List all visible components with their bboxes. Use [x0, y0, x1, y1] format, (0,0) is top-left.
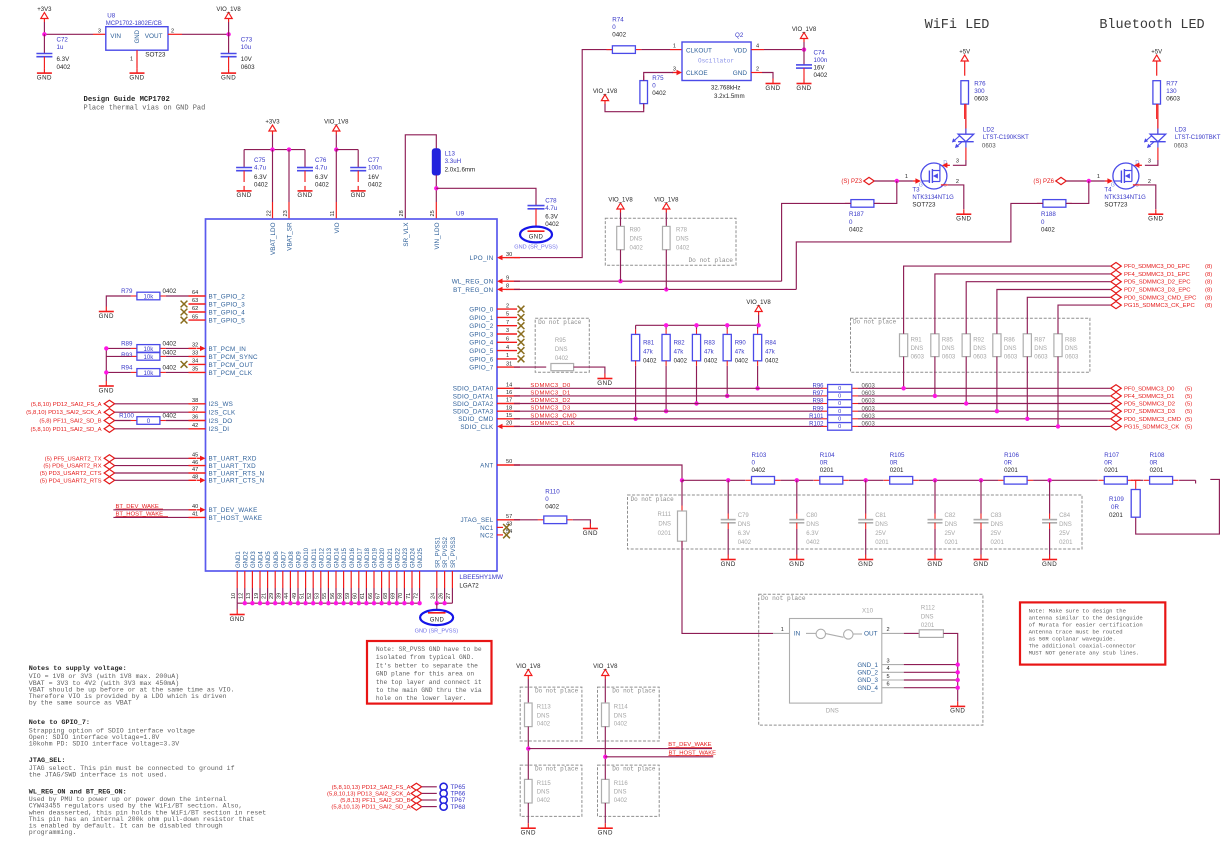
- power symbol VIO_1V8 (R113): [516, 664, 541, 679]
- bus SDIO pull-up rail: [636, 324, 759, 326]
- svg-text:TP68: TP68: [451, 804, 466, 811]
- svg-text:0R: 0R: [1150, 459, 1158, 466]
- svg-text:R110: R110: [545, 489, 560, 496]
- capacitor C84 DNS: [1049, 480, 1051, 513]
- power symbol +3V3 (LDO input): [37, 7, 52, 22]
- svg-text:VBAT_SR: VBAT_SR: [287, 222, 294, 251]
- svg-text:0201: 0201: [1104, 467, 1118, 474]
- svg-text:DNS: DNS: [973, 346, 986, 352]
- svg-text:C82: C82: [945, 513, 957, 519]
- svg-text:0402: 0402: [163, 350, 177, 357]
- svg-text:0603: 0603: [982, 143, 996, 150]
- svg-text:SR_PVSS2: SR_PVSS2: [443, 536, 449, 568]
- svg-text:0402: 0402: [849, 227, 863, 234]
- svg-text:24: 24: [431, 593, 437, 599]
- wire R92 to EPC port: [966, 282, 1110, 334]
- wire R187 to T3 gate: [874, 181, 897, 203]
- svg-text:PD7_SDMMC3_D3: PD7_SDMMC3_D3: [1124, 409, 1176, 415]
- ground R79: [99, 307, 114, 320]
- svg-text:GND: GND: [236, 192, 251, 199]
- svg-text:DNS: DNS: [1004, 346, 1017, 352]
- power symbol VIO_1V8 (VIO pin): [324, 120, 349, 135]
- wire PD4_USART2_RTS to U9: [115, 479, 189, 481]
- svg-text:0: 0: [545, 496, 549, 503]
- wire L13 to C78: [436, 188, 536, 205]
- svg-text:GND22: GND22: [395, 547, 401, 568]
- svg-text:R114: R114: [614, 704, 629, 710]
- resistor R93: [131, 353, 166, 361]
- power symbol VIO_1V8 (LDO output): [228, 22, 230, 34]
- svg-text:GND: GND: [796, 85, 811, 92]
- svg-text:0402: 0402: [614, 798, 628, 804]
- svg-text:GND (SR_PVSS): GND (SR_PVSS): [415, 628, 459, 634]
- svg-text:GND: GND: [927, 561, 942, 568]
- svg-text:LPO_IN: LPO_IN: [470, 255, 494, 262]
- svg-text:PG15_SDMMC3_CK_EPC: PG15_SDMMC3_CK_EPC: [1124, 303, 1195, 309]
- svg-text:BT_PCM_IN: BT_PCM_IN: [209, 346, 247, 353]
- svg-text:0603: 0603: [862, 399, 876, 405]
- svg-text:R116: R116: [614, 781, 629, 787]
- svg-text:R104: R104: [820, 452, 835, 459]
- port PD5_SDMMC3_D2: [1111, 400, 1122, 407]
- svg-text:GND_2: GND_2: [857, 670, 878, 677]
- svg-text:GPIO_0: GPIO_0: [469, 307, 493, 314]
- svg-text:PF0_SDMMC3_D0_EPC: PF0_SDMMC3_D0_EPC: [1124, 264, 1191, 270]
- svg-text:I2S_CLK: I2S_CLK: [209, 410, 237, 417]
- svg-text:GND5: GND5: [266, 551, 272, 568]
- svg-text:NC1: NC1: [480, 525, 494, 532]
- junction BT_DEV_WAKE: [526, 746, 530, 750]
- svg-text:0603: 0603: [1174, 143, 1188, 150]
- svg-text:3: 3: [1148, 158, 1151, 164]
- svg-text:13: 13: [246, 593, 252, 599]
- svg-text:C80: C80: [806, 513, 818, 519]
- svg-text:100n: 100n: [368, 165, 382, 172]
- svg-text:1: 1: [130, 57, 133, 63]
- pin 1 T3 gate: [913, 178, 921, 183]
- svg-text:(8): (8): [1205, 303, 1212, 309]
- svg-text:61: 61: [360, 593, 366, 599]
- svg-text:GND: GND: [721, 561, 736, 568]
- junction R81: [633, 417, 637, 421]
- svg-text:BT_PCM_OUT: BT_PCM_OUT: [209, 362, 254, 369]
- svg-text:(5) PD4_USART2_RTS: (5) PD4_USART2_RTS: [40, 478, 102, 484]
- do-not-place box antenna caps: [628, 495, 1083, 549]
- svg-text:5: 5: [887, 674, 890, 680]
- wire SDMMC3_D0: [514, 387, 822, 389]
- svg-text:Note: Make sure to design the: Note: Make sure to design the: [1029, 607, 1126, 614]
- svg-text:DNS: DNS: [537, 790, 550, 796]
- svg-text:0402: 0402: [806, 540, 820, 546]
- wire R84 to SDIO line: [757, 366, 759, 389]
- svg-text:66: 66: [368, 593, 374, 599]
- junction VDD/C74: [802, 47, 806, 51]
- svg-text:GND: GND: [1042, 561, 1057, 568]
- svg-text:LD3: LD3: [1175, 127, 1187, 134]
- svg-text:0603: 0603: [1034, 355, 1048, 361]
- svg-text:72: 72: [413, 593, 419, 599]
- junction R92: [964, 401, 968, 405]
- resistor R90 47k: [726, 325, 728, 329]
- svg-text:0402: 0402: [612, 32, 626, 39]
- ground C76: [297, 186, 312, 199]
- capacitor C82 DNS: [934, 480, 936, 513]
- junction VBAT_LDO: [270, 147, 274, 151]
- svg-text:GND7: GND7: [281, 551, 287, 568]
- svg-text:(5): (5): [1185, 402, 1192, 408]
- svg-text:NTK3134NT1G: NTK3134NT1G: [912, 195, 954, 201]
- svg-text:BT_GPIO_3: BT_GPIO_3: [209, 301, 246, 308]
- svg-text:VIO_1V8: VIO_1V8: [792, 27, 817, 33]
- power symbol +3V3 (VBAT): [265, 120, 280, 135]
- pin 2 X10 OUT: [882, 632, 904, 634]
- svg-text:R113: R113: [537, 704, 552, 710]
- svg-text:DNS: DNS: [555, 347, 568, 353]
- svg-text:25V: 25V: [875, 531, 886, 537]
- ground R116: [598, 823, 613, 836]
- svg-text:DNS: DNS: [991, 522, 1004, 528]
- svg-text:GND: GND: [597, 380, 612, 387]
- wire SR_PVSS to isolated ground: [436, 603, 438, 609]
- svg-text:3: 3: [887, 658, 890, 664]
- svg-text:GND17: GND17: [357, 547, 363, 568]
- wire R86 to SDIO line: [996, 357, 998, 412]
- junction VOUT/C73: [226, 32, 230, 36]
- resistor R87 DNS: [1023, 334, 1031, 357]
- svg-text:41: 41: [192, 512, 198, 518]
- svg-text:Place thermal vias on GND Pad: Place thermal vias on GND Pad: [84, 105, 206, 113]
- svg-text:0603: 0603: [942, 355, 956, 361]
- svg-text:GND: GND: [230, 616, 245, 623]
- resistor R102 0: [822, 425, 828, 427]
- resistor R84 47k: [757, 325, 759, 329]
- svg-text:0402: 0402: [537, 722, 551, 728]
- svg-text:GND15: GND15: [342, 547, 348, 568]
- svg-text:DNS: DNS: [614, 713, 627, 719]
- bus GND pins U9: [237, 602, 419, 604]
- svg-text:0: 0: [652, 82, 656, 89]
- ground SR_PVSS isolated: [420, 610, 453, 625]
- wire LD2 cathode to T3 drain: [965, 148, 967, 161]
- svg-text:SOT723: SOT723: [1104, 202, 1128, 209]
- ground C81: [858, 555, 873, 568]
- svg-text:DNS: DNS: [537, 713, 550, 719]
- svg-text:0402: 0402: [643, 359, 657, 365]
- svg-text:DNS: DNS: [1034, 346, 1047, 352]
- power symbol VIO_1V8 (R78): [654, 198, 679, 213]
- pin 3 T4 drain: [1134, 163, 1142, 168]
- svg-text:47k: 47k: [674, 350, 685, 356]
- svg-text:GND: GND: [99, 387, 114, 394]
- svg-text:GND: GND: [765, 85, 780, 92]
- svg-text:R78: R78: [676, 228, 688, 234]
- svg-text:4.7u: 4.7u: [545, 205, 558, 212]
- svg-text:GPIO_2: GPIO_2: [469, 323, 493, 330]
- svg-text:SDIO_DATA0: SDIO_DATA0: [453, 386, 494, 393]
- svg-text:SR_PVSS1: SR_PVSS1: [435, 536, 441, 568]
- wire R92 to SDIO line: [965, 357, 967, 404]
- svg-text:T4: T4: [1104, 186, 1112, 193]
- wire R90 to SDIO line: [726, 366, 728, 396]
- svg-text:10u: 10u: [241, 44, 252, 51]
- svg-text:SOT723: SOT723: [912, 202, 936, 209]
- svg-text:GND: GND: [37, 74, 52, 81]
- wire PF11_SAI2_SD_B to TP67: [422, 799, 437, 801]
- svg-text:0603: 0603: [862, 422, 876, 428]
- wire R115 to ground: [527, 803, 529, 823]
- svg-text:R102: R102: [809, 422, 824, 428]
- wire GND_4 to GND rail: [904, 687, 958, 689]
- svg-text:R99: R99: [812, 406, 824, 412]
- svg-text:71: 71: [406, 593, 412, 599]
- svg-text:C75: C75: [254, 157, 266, 164]
- svg-text:6.3V: 6.3V: [806, 531, 818, 537]
- svg-text:6.3V: 6.3V: [57, 56, 71, 63]
- ground C83: [973, 555, 988, 568]
- svg-text:VIO_1V8: VIO_1V8: [324, 120, 349, 126]
- ground U8: [129, 68, 144, 81]
- svg-text:(5,8,10,13) PD11_SAI2_SD_A: (5,8,10,13) PD11_SAI2_SD_A: [331, 805, 410, 811]
- junction VIO/C77: [334, 147, 338, 151]
- wire SDMMC3_CLK: [514, 425, 822, 427]
- svg-text:R77: R77: [1166, 81, 1178, 88]
- svg-text:0603: 0603: [974, 96, 988, 103]
- svg-text:I2S_DI: I2S_DI: [209, 426, 230, 433]
- do-not-place box X10: [759, 594, 983, 725]
- svg-text:PF0_SDMMC3_D0: PF0_SDMMC3_D0: [1124, 386, 1175, 392]
- svg-text:56: 56: [330, 593, 336, 599]
- svg-text:R82: R82: [674, 341, 686, 347]
- resistor R74: [606, 46, 641, 54]
- svg-text:0: 0: [752, 459, 756, 466]
- wire R74 to CLKOUT: [641, 49, 670, 51]
- svg-text:0603: 0603: [1166, 96, 1180, 103]
- svg-text:22: 22: [266, 210, 272, 216]
- transistor T3: [912, 160, 954, 209]
- svg-text:VBAT_LDO: VBAT_LDO: [270, 222, 277, 255]
- svg-text:0402: 0402: [545, 221, 559, 228]
- capacitor C78: [528, 206, 545, 209]
- switch X10 DNS: [790, 608, 882, 715]
- svg-text:R109: R109: [1109, 496, 1124, 503]
- bus VBAT: [244, 149, 305, 151]
- capacitor C83 DNS: [980, 480, 982, 513]
- wire antenna stub: [1136, 479, 1220, 534]
- svg-text:0: 0: [612, 24, 616, 31]
- port PD5_SDMMC3_D2_EPC: [1111, 278, 1122, 285]
- svg-text:1u: 1u: [57, 44, 64, 51]
- transistor T4: [1104, 160, 1146, 209]
- svg-text:Antenna trace must be routed: Antenna trace must be routed: [1029, 628, 1123, 635]
- svg-text:16V: 16V: [368, 174, 380, 181]
- svg-text:Do not place: Do not place: [612, 688, 656, 695]
- svg-text:L13: L13: [445, 150, 456, 157]
- wire GND bus to ground: [236, 603, 238, 609]
- wire SDMMC3_D1: [514, 395, 822, 397]
- svg-text:GND24: GND24: [411, 547, 417, 568]
- svg-text:X10: X10: [862, 608, 874, 615]
- svg-text:DNS: DNS: [921, 615, 934, 621]
- wire R85 to EPC port: [935, 274, 1111, 334]
- svg-text:(5,8,10) PD11_SAI2_SD_A: (5,8,10) PD11_SAI2_SD_A: [31, 427, 102, 433]
- svg-text:+5V: +5V: [1151, 50, 1162, 56]
- svg-text:SDMMC3_D1: SDMMC3_D1: [530, 390, 570, 396]
- svg-text:(5,8) PF11_SAI2_SD_B: (5,8) PF11_SAI2_SD_B: [39, 419, 101, 425]
- testpoint TP66: [440, 790, 447, 797]
- wire R81 to SDIO line: [635, 366, 637, 419]
- svg-text:6.3V: 6.3V: [738, 531, 750, 537]
- power symbol +5V (R77): [1151, 50, 1162, 65]
- wire R82 to SDIO line: [665, 366, 667, 411]
- ground C80: [789, 555, 804, 568]
- svg-text:(5,8,10,13) PD12_SAI2_FS_A: (5,8,10,13) PD12_SAI2_FS_A: [332, 785, 411, 791]
- svg-text:GND11: GND11: [312, 548, 318, 568]
- svg-text:(8): (8): [1205, 264, 1212, 270]
- wire VBAT_SR pin: [288, 150, 290, 202]
- svg-text:16V: 16V: [814, 64, 826, 71]
- svg-text:0402: 0402: [765, 359, 779, 365]
- svg-text:49: 49: [292, 593, 298, 599]
- port PF0_SDMMC3_D0: [1111, 385, 1122, 392]
- svg-text:VIN_LDO: VIN_LDO: [434, 222, 441, 249]
- wire ANT: [514, 465, 682, 480]
- svg-text:VIO_1V8: VIO_1V8: [216, 7, 241, 13]
- svg-text:51: 51: [299, 593, 305, 599]
- svg-text:C77: C77: [368, 157, 380, 164]
- wire R100 to I2S_DO: [166, 420, 189, 422]
- do-not-place box R80/R78: [605, 218, 736, 265]
- power symbol VIO_1V8 (R114): [593, 664, 618, 679]
- svg-text:47k: 47k: [643, 350, 654, 356]
- svg-text:0402: 0402: [57, 64, 71, 71]
- ground Q2: [765, 79, 780, 92]
- svg-text:DNS: DNS: [676, 237, 689, 243]
- svg-text:GND: GND: [1148, 216, 1163, 223]
- svg-text:(5): (5): [1185, 394, 1192, 400]
- svg-text:DNS: DNS: [911, 346, 924, 352]
- svg-text:47k: 47k: [735, 350, 746, 356]
- resistor R100: [131, 417, 166, 425]
- svg-text:BT_UART_CTS_N: BT_UART_CTS_N: [209, 478, 265, 485]
- wire PD11_SAI2_SD_A to U9: [115, 428, 189, 430]
- svg-text:BT_PCM_SYNC: BT_PCM_SYNC: [209, 354, 258, 361]
- wire BT_DEV_WAKE net: [528, 748, 712, 750]
- svg-text:0402: 0402: [163, 365, 177, 372]
- wire VDD to VIO_1V8/C74: [751, 49, 764, 51]
- svg-text:0402: 0402: [368, 182, 382, 189]
- resistor R95 DNS: [551, 364, 574, 371]
- svg-text:The additional coaxial-connect: The additional coaxial-connector: [1029, 642, 1136, 649]
- svg-text:70: 70: [398, 593, 404, 599]
- junction gate T4: [1087, 179, 1091, 183]
- wire R95 to GND: [574, 367, 605, 373]
- resistor R78 DNS: [663, 226, 671, 249]
- svg-text:R92: R92: [973, 338, 985, 344]
- svg-text:2: 2: [756, 66, 759, 72]
- svg-text:0201: 0201: [875, 540, 889, 546]
- capacitor C80 DNS: [796, 480, 798, 513]
- svg-text:U8: U8: [107, 13, 115, 20]
- resistor R75: [640, 76, 648, 109]
- do-not-place box R95 (GPIO_7): [535, 318, 589, 372]
- svg-text:VOUT: VOUT: [145, 33, 163, 40]
- svg-text:(5,8,10) PD12_SAI2_FS_A: (5,8,10) PD12_SAI2_FS_A: [31, 402, 102, 408]
- svg-text:300: 300: [974, 88, 985, 95]
- svg-text:programming.: programming.: [29, 829, 76, 836]
- svg-text:0603: 0603: [862, 414, 876, 420]
- wire R76 to LD2: [964, 104, 966, 119]
- ground R110: [583, 524, 598, 537]
- resistor R91 DNS: [900, 334, 908, 357]
- svg-text:R112: R112: [921, 606, 936, 612]
- svg-text:SDIO_DATA2: SDIO_DATA2: [453, 401, 494, 408]
- junction R88: [1056, 424, 1060, 428]
- wire ANT chain: [682, 479, 745, 481]
- svg-text:GPIO_1: GPIO_1: [469, 315, 493, 322]
- svg-text:3: 3: [956, 158, 959, 164]
- svg-text:2.0x1.6mm: 2.0x1.6mm: [445, 166, 476, 173]
- junction pull-up rail: [694, 323, 698, 327]
- svg-text:Do not place: Do not place: [612, 766, 656, 773]
- svg-text:0402: 0402: [814, 72, 828, 79]
- svg-text:0402: 0402: [652, 90, 666, 97]
- svg-text:T3: T3: [912, 186, 920, 193]
- svg-text:SR_VLX: SR_VLX: [403, 222, 410, 247]
- svg-text:+5V: +5V: [959, 50, 970, 56]
- svg-text:C81: C81: [875, 513, 887, 519]
- svg-text:(5,8,13) PF11_SAI2_SD_B: (5,8,13) PF11_SAI2_SD_B: [340, 798, 410, 804]
- svg-text:3.2x1.5mm: 3.2x1.5mm: [714, 93, 745, 100]
- svg-text:0603: 0603: [862, 406, 876, 412]
- svg-text:BT_UART_RXD: BT_UART_RXD: [209, 456, 257, 463]
- svg-text:26: 26: [438, 593, 444, 599]
- junction ANT chain start: [680, 478, 684, 482]
- wire BT_REG_ON: [514, 288, 796, 290]
- svg-text:0R: 0R: [890, 459, 898, 466]
- svg-text:0201: 0201: [658, 531, 672, 537]
- resistor R115 DNS: [525, 779, 533, 803]
- svg-text:GND: GND: [789, 561, 804, 568]
- svg-text:R98: R98: [812, 399, 824, 405]
- svg-text:R87: R87: [1034, 338, 1046, 344]
- svg-text:0R: 0R: [820, 459, 828, 466]
- svg-text:R111: R111: [658, 512, 672, 518]
- svg-text:2: 2: [956, 179, 959, 185]
- svg-text:1: 1: [673, 44, 676, 50]
- svg-text:C79: C79: [738, 513, 750, 519]
- svg-text:GND13: GND13: [327, 547, 333, 568]
- wire R88 to EPC port: [1058, 305, 1110, 334]
- wire BT_REG_ON to R188: [796, 203, 1043, 289]
- junction R94 gnd net: [104, 370, 108, 374]
- svg-text:GND14: GND14: [335, 547, 341, 568]
- wire WL_REG_ON to R187: [782, 203, 851, 281]
- svg-text:DNS: DNS: [738, 522, 751, 528]
- svg-text:hole on the lower layer.: hole on the lower layer.: [376, 695, 467, 702]
- junction R82: [664, 409, 668, 413]
- wire R110 to GND: [573, 520, 591, 524]
- svg-text:U9: U9: [456, 211, 465, 218]
- svg-text:SDMMC3_CMD: SDMMC3_CMD: [530, 413, 577, 419]
- junction L13/C78: [434, 186, 438, 190]
- svg-text:0201: 0201: [1150, 467, 1164, 474]
- svg-text:R90: R90: [735, 341, 747, 347]
- svg-text:12: 12: [239, 593, 245, 599]
- svg-text:0402: 0402: [752, 467, 766, 474]
- svg-text:0201: 0201: [921, 623, 935, 629]
- junction pull-up rail: [664, 323, 668, 327]
- resistor R114 DNS: [602, 703, 610, 727]
